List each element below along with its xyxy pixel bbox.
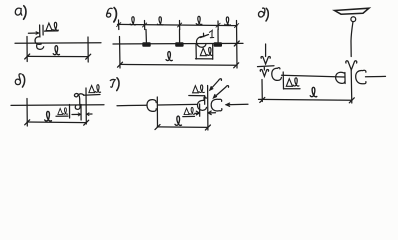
plumb cord	[351, 22, 353, 57]
dl top tick (g)	[204, 96, 206, 105]
end tick right (a)	[87, 37, 89, 62]
dimension line (d)	[259, 98, 353, 101]
leader line 1 (v)	[201, 35, 209, 38]
dim slash left (b)	[25, 120, 30, 125]
dimension line l (a)	[27, 55, 88, 57]
left tick long (v)	[119, 37, 122, 69]
end tick left (b)	[26, 99, 28, 127]
dim slash right (g)	[205, 125, 210, 130]
tape line (a)	[15, 42, 101, 44]
pin lead 2 (v)	[179, 30, 181, 43]
pin vertical (d)	[350, 70, 353, 103]
label 1 (v)	[209, 30, 213, 37]
upper tape end line (b)	[84, 94, 101, 97]
bar (d)	[282, 72, 284, 89]
dim slash right (v)	[234, 63, 239, 68]
staple 1 (v)	[142, 42, 150, 47]
label l (b)	[45, 111, 52, 121]
dim arrow (a)	[36, 32, 39, 35]
arrowed line right (g)	[226, 103, 229, 106]
point crossbar (d)	[258, 65, 275, 68]
plummet dish	[335, 8, 370, 14]
pin 1 (g)	[156, 97, 158, 127]
bar mid (d)	[344, 73, 346, 84]
hook right (d)	[356, 70, 366, 84]
pin lead 1 (v)	[145, 30, 147, 43]
staple 2 (v)	[175, 42, 183, 47]
dl bottom arrow left (g)	[196, 111, 199, 115]
label l seg2 (v)	[157, 17, 163, 25]
staple 3 (v)	[214, 42, 222, 47]
small tick 1 (b)	[69, 105, 71, 119]
label l (g)	[175, 116, 181, 125]
label l seg1 (v)	[130, 17, 136, 25]
dim leader line (a)	[28, 32, 38, 34]
underline dl lower (b)	[56, 115, 68, 117]
label dl upper (b)	[89, 85, 101, 93]
label v	[107, 8, 113, 17]
dim tick 1 (a)	[39, 25, 41, 35]
label dl lower (b)	[58, 108, 68, 115]
tick slashes upper dim (v)	[117, 23, 239, 28]
pin lead 3 (v)	[217, 30, 219, 43]
label dl (v)	[200, 47, 212, 55]
tape line left section (d)	[282, 75, 345, 77]
dim arrow left (b)	[78, 113, 81, 116]
extension left (d)	[261, 80, 263, 102]
dl box left tick (v)	[195, 44, 197, 59]
label l seg3 (v)	[196, 16, 202, 24]
dim slash left (a)	[25, 54, 30, 59]
upper dim tick 1 (v)	[118, 20, 120, 30]
plumb arrowhead mid	[346, 61, 357, 70]
slash right at tape (v)	[234, 41, 239, 46]
S-fold hook (b)	[74, 93, 83, 109]
tape line left (g)	[117, 104, 147, 107]
dl bottom arrow right (g)	[208, 111, 211, 115]
pin 2 (g)	[207, 86, 209, 131]
dim slash right (a)	[86, 54, 91, 59]
dim slash left (d)	[260, 97, 265, 102]
dl underline (v)	[196, 58, 213, 60]
dim slash left (g)	[155, 125, 160, 130]
dim slash left (v)	[118, 62, 123, 67]
tape line mid (g)	[158, 103, 197, 106]
label dl top (g)	[193, 85, 205, 93]
dl bottom tick (g)	[199, 104, 201, 116]
dl box right tick (v)	[212, 44, 214, 59]
upper dim tick 4 (v)	[217, 21, 219, 30]
ring mid-left (d)	[336, 72, 345, 83]
dim slash right (d)	[349, 98, 354, 103]
label l (a)	[53, 46, 59, 55]
upper dim tick 3 (v)	[179, 21, 181, 30]
label g	[110, 79, 115, 87]
dimension line l (b)	[27, 121, 86, 124]
label l (v)	[166, 52, 172, 61]
hook (v)	[196, 33, 205, 47]
dim slash right (b)	[84, 120, 89, 125]
ring left (d)	[272, 68, 282, 81]
left arrow 1 head (d)	[261, 57, 270, 64]
dim tick 2 (a)	[42, 25, 44, 35]
label a	[15, 8, 22, 15]
diag arrow 1 (g)	[210, 79, 222, 90]
mark tick (b)	[85, 88, 87, 124]
dl top underline (g)	[189, 95, 205, 97]
ring left (g)	[147, 100, 156, 112]
label l (d)	[310, 87, 317, 96]
tape line right section (d)	[366, 75, 386, 77]
label dl (d)	[286, 78, 299, 86]
end tick left (a)	[26, 37, 28, 62]
diag arrow 2 (g)	[214, 86, 229, 98]
label dl (a)	[46, 22, 58, 30]
hook mid (g)	[197, 97, 206, 110]
dl bottom underline (g)	[183, 115, 195, 117]
dl underline (a)	[45, 30, 59, 32]
small tick 2 (b)	[80, 105, 82, 121]
right tick long (v)	[236, 21, 239, 69]
dim arrow right (b)	[87, 113, 89, 116]
label dl bottom (g)	[184, 107, 195, 114]
left arrow 1 shaft (d)	[265, 44, 267, 57]
dl underline (d)	[284, 88, 301, 90]
bottom dim line (g)	[157, 126, 208, 129]
bottom dim line (v)	[120, 63, 236, 66]
tape hook (a)	[35, 35, 44, 49]
hook right (g)	[211, 99, 222, 111]
plummet ring	[351, 17, 356, 22]
upper dim line (v)	[118, 24, 238, 25]
tape line (v)	[113, 42, 243, 45]
label d	[258, 8, 264, 17]
label b	[15, 74, 21, 85]
tape line lower (b)	[11, 104, 104, 107]
upper dim tick 2 (v)	[144, 21, 146, 30]
left arrow 2 (d)	[260, 70, 268, 77]
label l seg4 (v)	[225, 17, 231, 25]
